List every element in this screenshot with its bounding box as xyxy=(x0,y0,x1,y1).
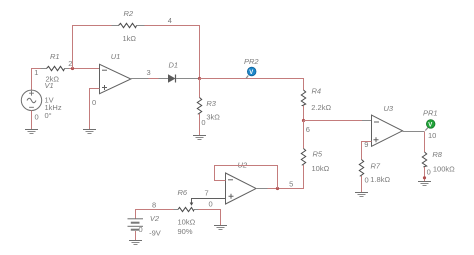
wire R3 bottom to ground xyxy=(199,114,201,136)
svg-text:0: 0 xyxy=(139,225,143,234)
svg-text:7: 7 xyxy=(205,188,209,197)
svg-text:10: 10 xyxy=(428,131,436,140)
wire V1 bottom to ground xyxy=(31,111,33,130)
wire R5 down and left to U2 output (node 5) xyxy=(278,165,304,189)
svg-text:0: 0 xyxy=(209,199,213,208)
net 0 label at R8 xyxy=(427,168,431,177)
svg-text:0: 0 xyxy=(201,118,205,127)
wire U2 feedback loop output to inverting input xyxy=(215,166,278,189)
resistor R2 xyxy=(112,9,145,43)
svg-text:R4: R4 xyxy=(312,87,322,96)
wire R8 bottom to ground xyxy=(424,167,426,182)
resistor R8 xyxy=(422,150,455,174)
wire U3 output to R8 branch xyxy=(403,132,425,153)
op-amp U2 xyxy=(226,160,257,204)
probe PR1 xyxy=(423,109,438,131)
svg-text:0: 0 xyxy=(35,112,39,121)
voltage source V1 (AC sine) xyxy=(21,81,62,120)
svg-text:R3: R3 xyxy=(206,99,216,108)
node 8 label xyxy=(152,201,156,210)
ground right of R6 xyxy=(214,226,227,230)
node 4 label xyxy=(168,16,172,25)
svg-text:9: 9 xyxy=(364,140,368,149)
ground under V2 xyxy=(129,241,142,245)
wire U2 non-inverting input to R6 wiper xyxy=(192,199,226,203)
wire R6 right to ground xyxy=(199,210,221,226)
wire R2 to vertical drop into output rail xyxy=(145,26,200,79)
resistor R5 xyxy=(301,149,329,173)
net 0 label at V1 xyxy=(35,112,39,121)
svg-text:0°: 0° xyxy=(45,111,52,120)
svg-text:3: 3 xyxy=(147,68,151,77)
wire U2 output lead xyxy=(256,188,278,190)
battery V2 xyxy=(128,214,161,237)
wire junction down to R3 xyxy=(199,79,201,98)
potentiometer R6 xyxy=(174,188,199,236)
wire R1 to node 2 and U1 inverting input xyxy=(69,68,100,70)
svg-text:U2: U2 xyxy=(238,160,248,169)
ground under R7 xyxy=(355,193,368,197)
svg-text:10kΩ: 10kΩ xyxy=(312,164,330,173)
svg-text:1: 1 xyxy=(34,68,38,77)
net 0 label at U1 ground xyxy=(92,98,96,107)
svg-text:1kΩ: 1kΩ xyxy=(123,34,137,43)
svg-text:0: 0 xyxy=(365,176,369,185)
svg-text:1.8kΩ: 1.8kΩ xyxy=(370,175,390,184)
svg-text:PR2: PR2 xyxy=(244,57,259,66)
svg-text:10kΩ: 10kΩ xyxy=(178,218,196,227)
svg-text:3kΩ: 3kΩ xyxy=(206,113,220,122)
node 6 junction xyxy=(302,119,310,134)
node 9 label xyxy=(364,140,368,149)
wire R7 bottom to ground xyxy=(361,176,363,193)
resistor R1 xyxy=(41,52,70,84)
ground under R8 xyxy=(418,182,431,186)
junction above R8 ground xyxy=(423,176,426,179)
net 0 label at R7 xyxy=(365,176,369,185)
node 1 label xyxy=(34,68,38,77)
svg-text:V: V xyxy=(428,122,432,128)
ground under U1 + input xyxy=(83,130,96,134)
svg-text:0: 0 xyxy=(92,98,96,107)
node 2 junction xyxy=(68,59,74,70)
node 3 label xyxy=(147,68,151,77)
wire R6 left to V2 xyxy=(136,210,174,219)
junction node D1 / R3 / output rail xyxy=(198,77,201,80)
svg-text:R8: R8 xyxy=(432,150,442,159)
svg-text:-9V: -9V xyxy=(149,229,161,238)
resistor R7 xyxy=(359,160,390,185)
wire U1 output to D1 xyxy=(131,78,168,80)
node 10 label xyxy=(428,131,436,140)
svg-text:6: 6 xyxy=(306,125,310,134)
wire R4 to node 6 xyxy=(303,106,305,121)
svg-text:D1: D1 xyxy=(169,61,179,70)
resistor R3 xyxy=(197,98,220,122)
svg-text:R5: R5 xyxy=(313,150,323,159)
potentiometer R6 wiper arrow xyxy=(190,203,194,206)
ground under R3 xyxy=(193,136,206,140)
ground under V1 xyxy=(25,130,38,134)
svg-text:V1: V1 xyxy=(45,81,54,90)
svg-text:100kΩ: 100kΩ xyxy=(433,165,455,174)
diode D1 xyxy=(168,61,178,83)
wire V1 top lead to R1 xyxy=(32,69,41,91)
op-amp U1 xyxy=(100,52,131,94)
svg-text:2: 2 xyxy=(68,59,72,68)
wire U1 non-inverting input to ground xyxy=(90,89,100,130)
svg-text:V: V xyxy=(249,70,253,76)
net 0 label at R3 xyxy=(201,118,205,127)
svg-text:U3: U3 xyxy=(384,104,394,113)
svg-text:V2: V2 xyxy=(150,214,160,223)
wire D1 cathode to junction xyxy=(176,78,199,80)
wire node 6 down to R5 xyxy=(303,121,305,149)
wire U3 non-inverting input down to R7 xyxy=(362,142,372,160)
resistor R4 xyxy=(301,87,331,112)
svg-text:R6: R6 xyxy=(178,188,188,197)
svg-text:R1: R1 xyxy=(50,52,60,61)
node 5 label xyxy=(289,180,293,189)
net 0 label right of R6 xyxy=(209,199,213,208)
svg-text:5: 5 xyxy=(289,180,293,189)
op-amp U3 xyxy=(372,104,403,146)
svg-text:2.2kΩ: 2.2kΩ xyxy=(311,103,331,112)
svg-text:0: 0 xyxy=(427,168,431,177)
svg-text:U1: U1 xyxy=(111,52,121,61)
svg-text:90%: 90% xyxy=(178,227,193,236)
svg-text:4: 4 xyxy=(168,16,172,25)
junction U2 output node 5 xyxy=(276,187,279,190)
svg-text:PR1: PR1 xyxy=(423,109,438,118)
svg-text:R7: R7 xyxy=(371,162,381,171)
wire V2 bottom to ground xyxy=(135,231,137,241)
probe PR2 xyxy=(244,57,259,78)
wire node 6 to U3 inverting input xyxy=(304,120,372,122)
svg-text:8: 8 xyxy=(152,201,156,210)
wire node 2 up to feedback rail xyxy=(73,26,112,69)
svg-text:R2: R2 xyxy=(124,9,134,18)
node 7 label xyxy=(205,188,209,197)
net 0 label at V2 xyxy=(139,225,143,234)
wire main rail junction to R4 branch xyxy=(200,79,304,91)
